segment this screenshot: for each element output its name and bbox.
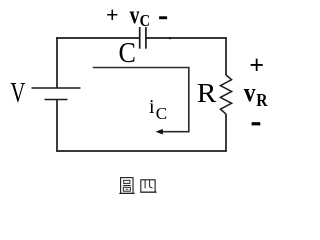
svg-text:+: + xyxy=(106,2,119,27)
label minus top xyxy=(159,16,167,19)
capacitor C left plate xyxy=(139,27,141,49)
svg-text:C: C xyxy=(140,11,150,30)
wire right lower xyxy=(225,114,227,152)
svg-text:i: i xyxy=(149,96,155,118)
wire left upper xyxy=(56,37,58,88)
svg-text:C: C xyxy=(119,37,136,69)
caption figure four 四 glyph xyxy=(140,180,156,192)
svg-text:+: + xyxy=(249,50,264,79)
svg-text:C: C xyxy=(156,104,167,123)
current arrowhead xyxy=(156,129,163,135)
wire right upper xyxy=(225,37,227,75)
junction blob on top wire xyxy=(169,37,172,39)
svg-text:v: v xyxy=(130,2,140,29)
label minus right xyxy=(252,122,261,125)
resistor R zigzag xyxy=(220,75,231,114)
wire top-right segment xyxy=(146,37,227,39)
wire top-left segment xyxy=(56,37,139,39)
capacitor C right plate xyxy=(145,27,147,49)
wire bottom xyxy=(56,150,226,152)
svg-text:R: R xyxy=(256,90,268,110)
caption figure four 圖 glyph xyxy=(119,178,134,194)
current loop wire i_C path xyxy=(93,68,189,132)
svg-text:V: V xyxy=(10,78,25,109)
voltage source V battery long plate xyxy=(32,87,81,89)
wire left lower xyxy=(56,100,58,152)
voltage source V battery short plate xyxy=(45,99,68,101)
svg-text:v: v xyxy=(244,78,256,107)
svg-text:R: R xyxy=(197,78,217,108)
